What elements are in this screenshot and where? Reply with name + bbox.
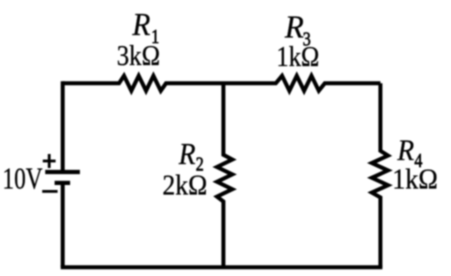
svg-text:R: R bbox=[284, 9, 304, 45]
battery V1 plate short (-) bbox=[55, 181, 71, 185]
svg-text:2kΩ: 2kΩ bbox=[162, 170, 207, 201]
svg-text:10V: 10V bbox=[2, 162, 42, 196]
svg-text:R: R bbox=[396, 134, 414, 167]
wire right branch with resistor R4 bbox=[372, 83, 388, 267]
svg-text:R: R bbox=[178, 138, 196, 172]
wire bottom bbox=[61, 265, 383, 269]
battery minus sign bbox=[42, 190, 57, 193]
battery plus sign bbox=[43, 154, 56, 168]
wire left upper bbox=[61, 81, 65, 170]
svg-text:1kΩ: 1kΩ bbox=[392, 164, 438, 195]
battery V1 plate long (+) bbox=[45, 170, 80, 174]
wire left lower bbox=[61, 184, 65, 267]
wire top with resistor R1 and resistor R3 bbox=[63, 76, 381, 91]
svg-text:3kΩ: 3kΩ bbox=[117, 40, 160, 72]
wire middle branch with resistor R2 bbox=[217, 83, 232, 267]
svg-text:R: R bbox=[131, 7, 150, 42]
svg-text:1kΩ: 1kΩ bbox=[276, 42, 319, 73]
